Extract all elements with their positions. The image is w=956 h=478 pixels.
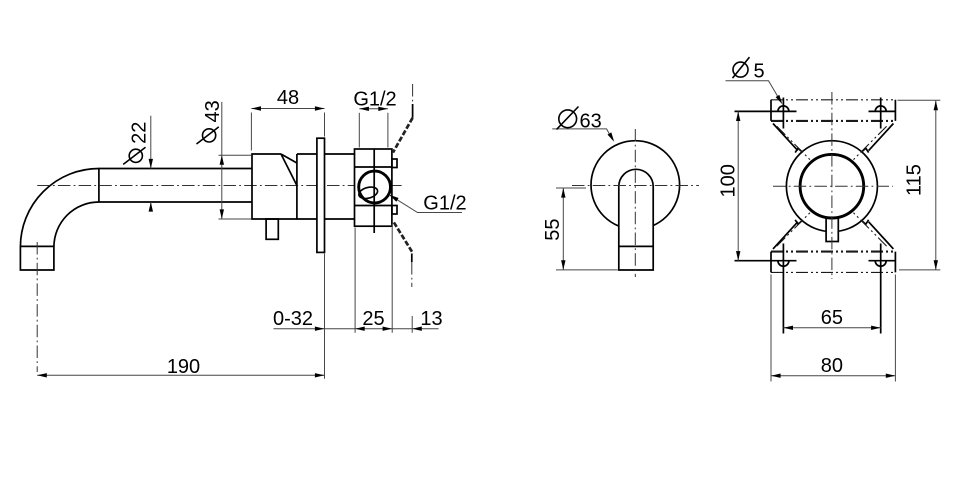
G1/2 inlet port circle xyxy=(359,171,391,203)
wall break line bottom xyxy=(394,222,413,253)
body neck section xyxy=(297,154,317,219)
outer flange circle xyxy=(786,141,877,232)
dimension 115 xyxy=(898,99,941,101)
svg-text:115: 115 xyxy=(904,164,926,196)
horizontal centerline xyxy=(773,185,893,187)
svg-text:13: 13 xyxy=(420,308,442,330)
spout axis centerline xyxy=(37,185,403,187)
mounting tab upper xyxy=(392,159,397,168)
svg-text:65: 65 xyxy=(821,307,843,329)
dimension 100 xyxy=(737,111,739,261)
phantom plate top edge xyxy=(771,99,895,101)
circle edge notches xyxy=(795,148,868,224)
extension line block rear xyxy=(391,224,393,333)
svg-text:190: 190 xyxy=(167,356,200,378)
dimension 25 xyxy=(355,327,365,331)
svg-text:0-32: 0-32 xyxy=(273,308,313,330)
mounting tab lower xyxy=(392,206,397,215)
phantom X diagonals xyxy=(777,126,887,246)
extension line flange face (long) xyxy=(324,254,326,379)
phantom plate bottom edge xyxy=(771,271,895,273)
wall flange (escutcheon) xyxy=(317,138,325,252)
outlet axis centerline xyxy=(36,242,38,372)
extension line wall face xyxy=(411,316,413,333)
valve body xyxy=(252,154,297,219)
dimension diameter 43 xyxy=(221,102,223,219)
vertical centerline xyxy=(831,92,833,279)
dimension G1/2 top xyxy=(358,113,360,148)
svg-text:G1/2: G1/2 xyxy=(423,192,466,214)
G1/2 bore circle (thick) xyxy=(800,154,864,218)
in-wall mounting block xyxy=(355,149,392,226)
dimension 48 xyxy=(250,113,252,151)
block internal lines xyxy=(355,149,392,233)
hole centerlines xyxy=(783,98,880,334)
spout body front xyxy=(619,169,653,270)
svg-text:55: 55 xyxy=(542,219,564,241)
spout tip joint xyxy=(619,245,653,247)
svg-text:5: 5 xyxy=(754,61,765,83)
diameter 63 label xyxy=(552,129,612,140)
spout tip joint line xyxy=(20,245,54,247)
vertical centerline xyxy=(634,129,636,277)
G1/2 side port leader xyxy=(389,195,462,213)
screw hole lines bottom xyxy=(735,260,895,262)
port bore ellipse xyxy=(358,185,379,200)
dimension 65 xyxy=(783,327,880,329)
svg-text:G1/2: G1/2 xyxy=(353,89,396,111)
svg-text:80: 80 xyxy=(821,355,843,377)
dimension 80 xyxy=(770,275,772,382)
dimension 13 xyxy=(412,327,422,331)
wall break line top xyxy=(412,84,414,104)
dimension 190 xyxy=(37,374,324,376)
extension line block front xyxy=(354,228,356,333)
elbow seam line xyxy=(98,169,100,203)
svg-text:48: 48 xyxy=(277,87,299,109)
dimension diameter 22 xyxy=(150,116,152,169)
svg-text:25: 25 xyxy=(362,308,384,330)
bracket corner diagonals xyxy=(773,124,893,249)
svg-text:43: 43 xyxy=(202,100,224,122)
screw hole arcs xyxy=(778,106,886,266)
plate side edges xyxy=(771,100,895,273)
phantom line lower inner (thick) xyxy=(771,251,895,253)
spout tube and elbow outline xyxy=(20,169,251,271)
svg-text:100: 100 xyxy=(717,164,739,197)
phantom line upper inner (thick) xyxy=(771,120,895,122)
set screw nub xyxy=(266,219,278,239)
dimension 55 xyxy=(556,187,586,189)
svg-text:63: 63 xyxy=(580,110,602,132)
diameter 5 label xyxy=(726,81,782,102)
bottom dimension chain line xyxy=(274,328,439,330)
neck behind flange xyxy=(325,154,355,219)
screw hole lines top xyxy=(735,110,895,112)
dimension 0-32 xyxy=(315,327,325,331)
horizontal centerline xyxy=(572,185,699,187)
bottom notch slot xyxy=(826,218,838,242)
svg-text:22: 22 xyxy=(129,122,151,144)
flange circle xyxy=(591,141,680,230)
